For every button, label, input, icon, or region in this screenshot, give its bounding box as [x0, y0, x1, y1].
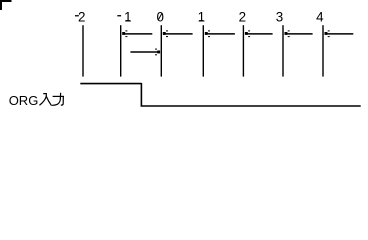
svg-text:3: 3	[276, 9, 283, 24]
label -1	[117, 9, 131, 24]
left arrow at 1	[205, 30, 235, 37]
label 1	[198, 9, 205, 24]
tick line 4	[322, 25, 324, 76]
tick line 2	[242, 25, 244, 76]
right arrow into 0	[130, 49, 160, 56]
tick line -1	[120, 25, 122, 76]
label 4	[316, 9, 324, 24]
svg-text:ORG: ORG	[9, 93, 39, 108]
svg-text:4: 4	[316, 9, 324, 24]
tick line -2	[82, 25, 84, 76]
left arrow at 2	[245, 30, 273, 37]
label 2	[239, 9, 246, 24]
glyph RYOKU (力)	[53, 93, 64, 105]
left arrow at 3	[285, 30, 313, 37]
left arrow at -1	[122, 30, 152, 37]
svg-text:1: 1	[124, 9, 131, 24]
figure border corner (top-left)	[1, 1, 12, 10]
label ORG input	[9, 93, 39, 108]
tick line 3	[282, 25, 284, 76]
svg-text:1: 1	[198, 9, 205, 24]
glyph NYUU (入)	[40, 94, 51, 106]
left arrow at 0	[163, 30, 193, 37]
ORG waveform low segment	[141, 105, 361, 107]
label -2	[75, 9, 85, 24]
svg-text:2: 2	[239, 9, 246, 24]
left arrow at 4	[325, 30, 354, 37]
label 0	[156, 9, 163, 24]
ORG waveform falling edge	[140, 83, 142, 106]
ORG waveform high segment	[80, 83, 141, 85]
svg-text:2: 2	[78, 9, 85, 24]
label 3	[276, 9, 283, 24]
tick line 0	[160, 25, 162, 76]
tick line 1	[202, 25, 204, 76]
